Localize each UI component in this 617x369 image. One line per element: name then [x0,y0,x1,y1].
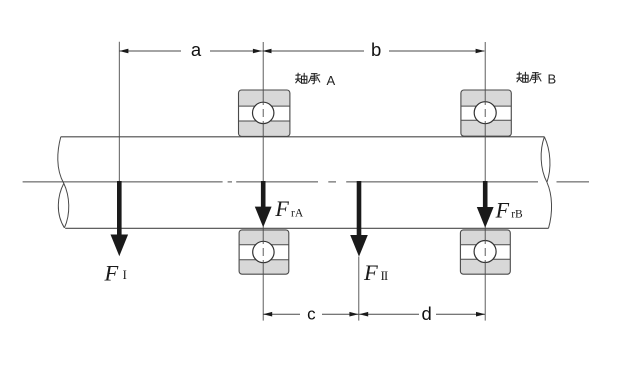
svg-text:II: II [381,269,388,283]
shaft bottom edge [65,227,548,229]
svg-text:d: d [421,303,431,324]
force arrow F rA [255,181,272,227]
svg-text:A: A [327,73,336,88]
bearing A bottom block [239,230,289,274]
承 character [309,74,320,84]
svg-text:B: B [548,72,557,87]
轴 character [517,72,528,82]
svg-text:F: F [274,196,289,221]
label bearing B (轴承 B) [517,72,541,83]
bearing B bottom block [460,230,510,274]
force arrow F rB [477,181,494,228]
bearing B centerline [484,42,486,321]
bearing A top block [239,90,290,136]
bearing A centerline [262,42,264,321]
extension line below F II arrow [358,257,360,321]
svg-text:F: F [363,260,378,285]
svg-text:I: I [123,268,127,282]
轴 character [296,73,307,83]
label bearing A (轴承 A) [296,73,320,84]
label F II [363,260,388,285]
shaft left break (S-curve and lens) [58,137,69,228]
dimension a [119,39,262,60]
承 character [530,73,541,83]
shaft top edge [61,136,545,138]
svg-text:c: c [307,305,316,324]
shaft right break (lens and S-curve) [541,137,551,229]
bearing B top block [461,90,511,136]
dimension b [262,39,485,60]
shaft centerline (chain line) [23,181,589,183]
svg-text:rB: rB [511,208,523,220]
svg-text:a: a [191,39,202,60]
label F rA [274,196,303,221]
dimension d [359,303,485,324]
force arrow F I [111,181,129,256]
svg-text:F: F [495,197,510,222]
label F I [104,261,127,286]
svg-text:F: F [104,261,119,286]
extension line at F I (left end of dimension a) [118,42,120,181]
force arrow F II [350,181,368,257]
svg-text:rA: rA [291,207,304,219]
label F rB [495,197,523,222]
dimension c [263,305,359,324]
svg-text:b: b [371,39,381,60]
